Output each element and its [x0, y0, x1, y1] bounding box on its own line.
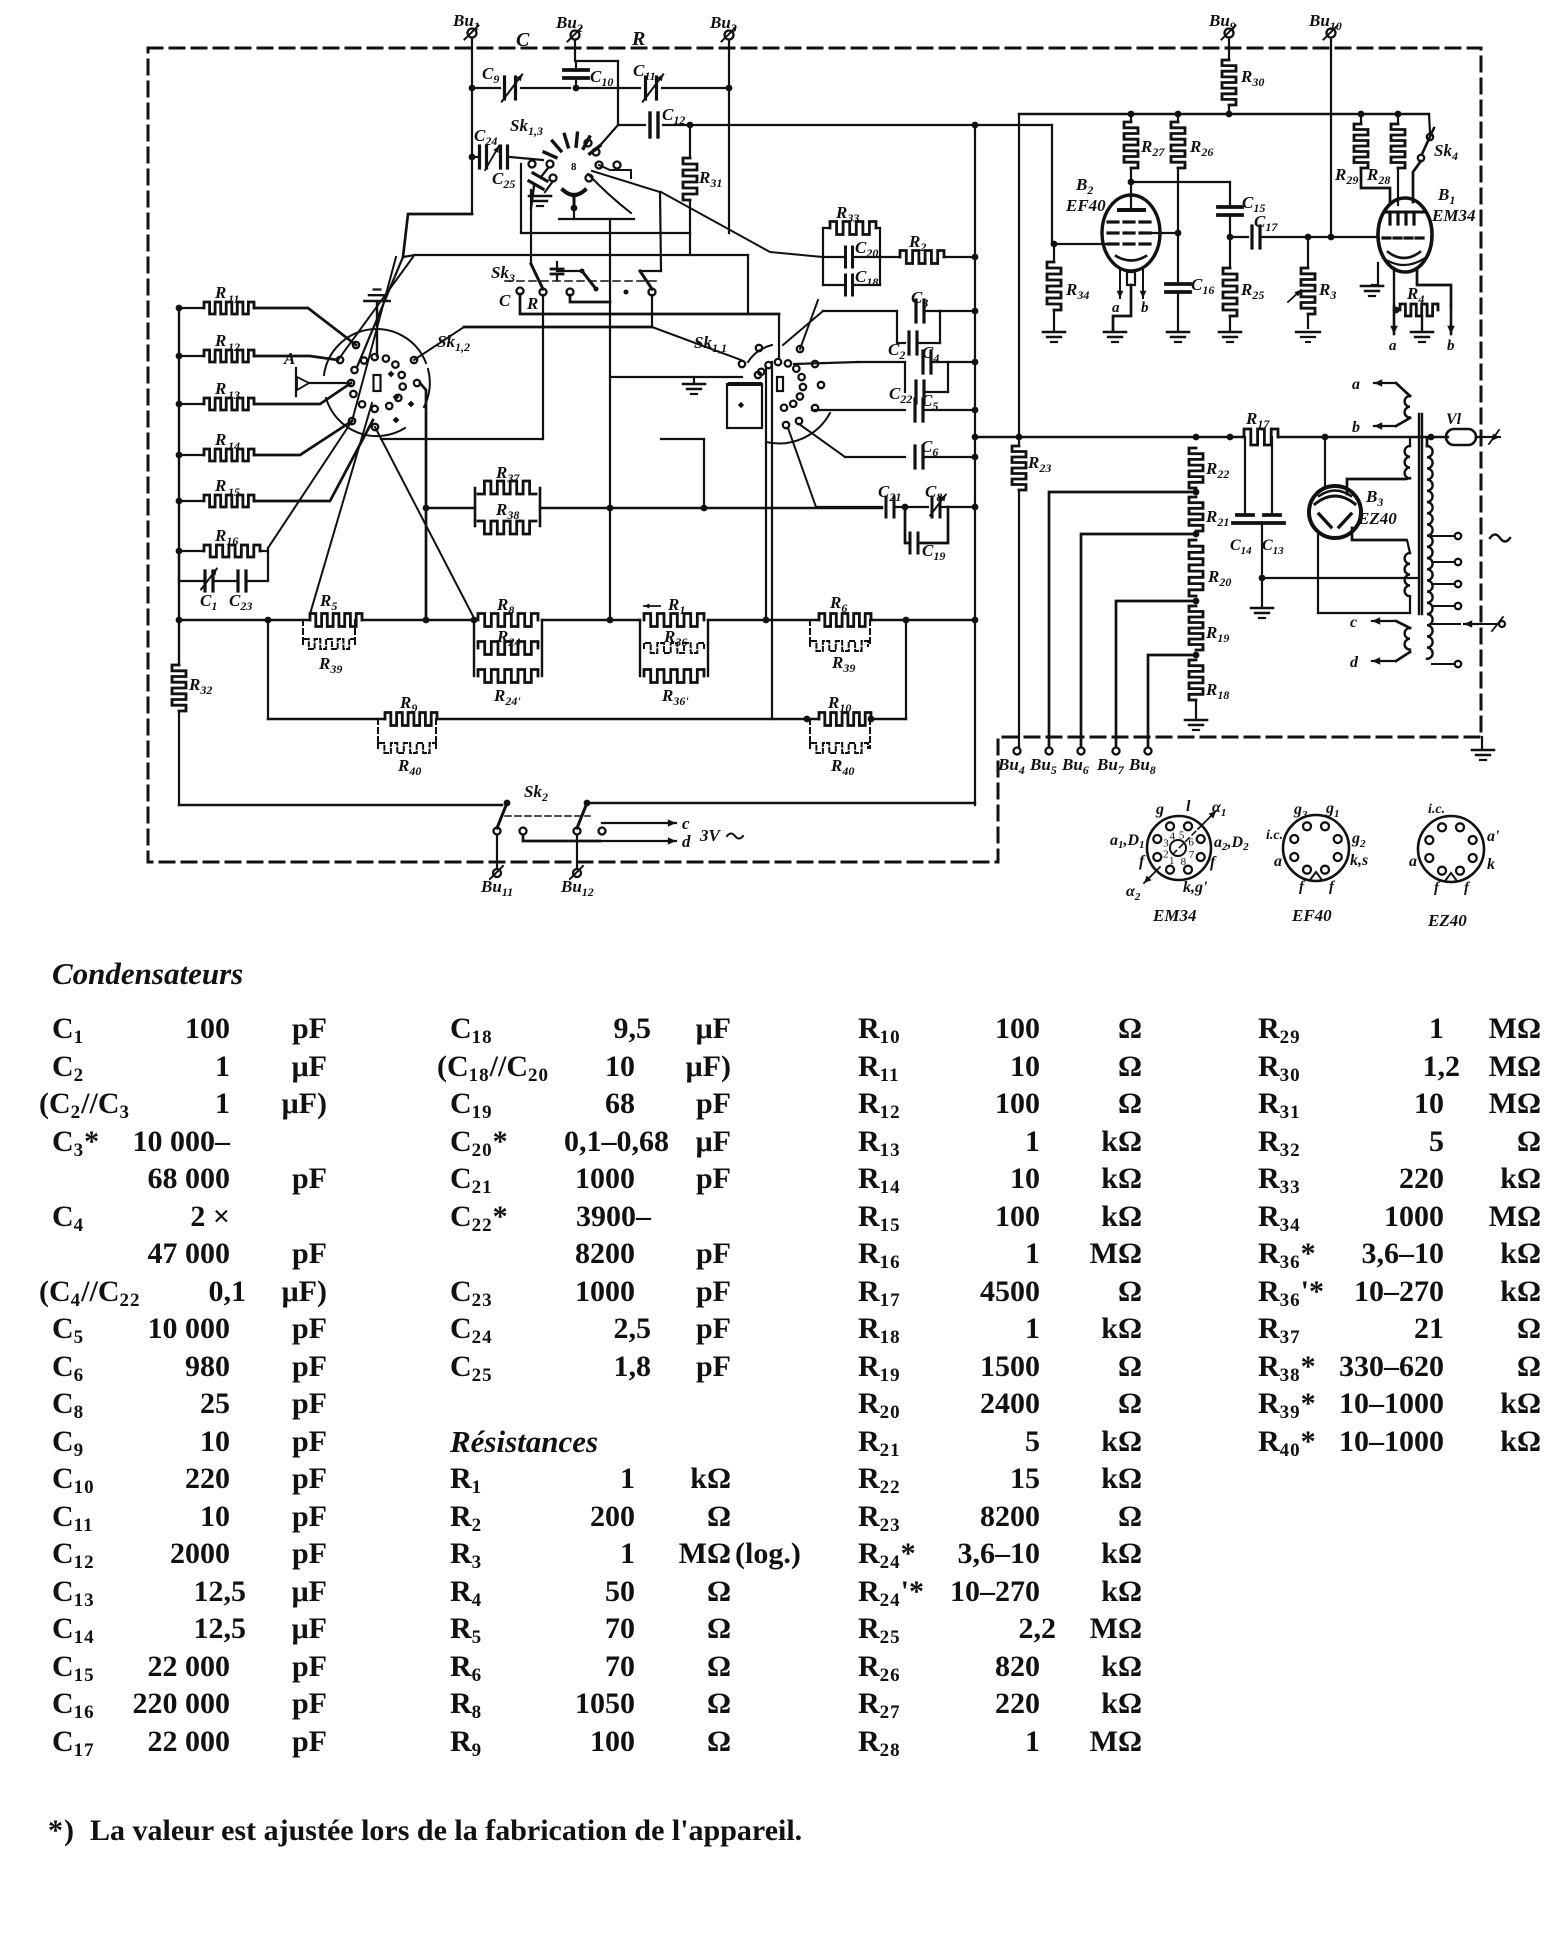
- svg-text:R37: R37: [495, 463, 520, 485]
- wire row y719: [268, 718, 385, 720]
- svg-text:R33: R33: [835, 203, 859, 225]
- wire R12-Sk1,2: [254, 356, 338, 360]
- transformer tap 2: [1432, 559, 1461, 565]
- socket EZ40 circle: [1418, 816, 1484, 882]
- tube B1 electrodes: [1383, 212, 1425, 265]
- svg-text:a2,D2: a2,D2: [1214, 834, 1249, 853]
- wire Sk1,1 drops: [766, 362, 772, 719]
- resistor R14: [176, 430, 254, 461]
- capacitor C19 (parallel): [905, 507, 948, 563]
- wire box slant: [357, 255, 415, 367]
- wire R38 output: [540, 505, 882, 512]
- svg-text:C10: C10: [590, 67, 613, 89]
- svg-text:C8: C8: [925, 482, 942, 504]
- wire HT rail: [1019, 113, 1429, 115]
- transformer winding a/b: [1352, 376, 1410, 436]
- svg-text:EF40: EF40: [1291, 906, 1332, 925]
- switch Sk4: [1413, 114, 1458, 202]
- svg-text:R28: R28: [1366, 165, 1390, 187]
- wire Sk3 blade3 out: [651, 295, 653, 327]
- resistor R12: [176, 331, 254, 362]
- svg-text:Vl: Vl: [1446, 411, 1462, 428]
- resistor chain R18: [1185, 660, 1229, 730]
- resistor R11: [176, 283, 254, 314]
- wire Bu6: [1081, 534, 1196, 747]
- wire Bu10 down: [1328, 38, 1335, 240]
- switch Sk3 blade2: [567, 269, 599, 296]
- svg-text:Bu6: Bu6: [1061, 755, 1089, 777]
- svg-text:3V: 3V: [699, 826, 722, 845]
- svg-text:R2: R2: [908, 232, 926, 254]
- svg-text:R31: R31: [698, 168, 722, 190]
- capacitor C24: [472, 126, 543, 170]
- wire C9 row: [472, 87, 570, 89]
- svg-text:R32: R32: [188, 675, 212, 697]
- transformer tap 4: [1432, 603, 1461, 609]
- resistor R26: [1171, 111, 1213, 233]
- svg-text:f: f: [1299, 879, 1306, 895]
- svg-text:C23: C23: [229, 591, 252, 613]
- svg-text:Sk1,2: Sk1,2: [437, 332, 470, 354]
- capacitor C16: [1166, 233, 1214, 342]
- svg-text:k,s: k,s: [1350, 852, 1368, 869]
- svg-text:R40: R40: [830, 756, 854, 778]
- tube B2 heater b: [1140, 270, 1149, 316]
- svg-text:R23: R23: [1027, 453, 1051, 475]
- terminal Bu9: [1208, 11, 1236, 40]
- svg-text:R19: R19: [1205, 623, 1229, 645]
- svg-text:Bu1: Bu1: [452, 11, 480, 33]
- resistor R39 (under R5): [303, 620, 355, 676]
- wire centre tap: [1262, 577, 1419, 579]
- capacitor C9: [482, 64, 522, 102]
- wire bus R6 right: [871, 617, 978, 624]
- svg-text:C17: C17: [1254, 212, 1278, 234]
- resistor R2: [880, 232, 978, 264]
- capacitor C1 loop: [179, 551, 217, 613]
- rotary switch Sk1,3: [510, 116, 621, 219]
- svg-text:R24': R24': [493, 686, 521, 708]
- svg-text:R: R: [526, 294, 538, 313]
- switch Sk3 blade1: [517, 264, 547, 296]
- wire C11-Bu3: [662, 87, 729, 89]
- svg-text:R29: R29: [1334, 165, 1358, 187]
- svg-text:R27: R27: [1140, 137, 1165, 159]
- terminal Bu6: [1061, 748, 1089, 778]
- svg-text:B3: B3: [1365, 487, 1383, 509]
- label Sk1,3 ground: [529, 181, 553, 206]
- capacitor C20: [823, 238, 880, 267]
- resistor R9: [385, 693, 437, 726]
- wire bus R8-R1: [542, 617, 640, 624]
- wire Sk1,2 slant1: [338, 257, 413, 360]
- svg-text:C3: C3: [911, 288, 928, 310]
- capacitor C12: [650, 105, 685, 137]
- wire x704 link: [661, 439, 704, 507]
- svg-text:R38: R38: [495, 500, 519, 522]
- resistor R15: [176, 476, 254, 507]
- svg-text:R30: R30: [1240, 67, 1264, 89]
- rotary switch Sk1,2: [324, 329, 470, 436]
- label C (Sk3): [499, 291, 511, 310]
- ground (C13/C14): [1251, 578, 1273, 618]
- wire Sk3 C contact: [520, 294, 779, 314]
- wire B3 cathode: [1322, 434, 1329, 487]
- svg-text:R: R: [214, 379, 226, 398]
- svg-text:R8: R8: [496, 595, 514, 617]
- resistor R30: [1222, 38, 1264, 117]
- wire Sk1,2 slant2: [352, 257, 396, 421]
- svg-text:Bu7: Bu7: [1096, 755, 1125, 777]
- transformer tap 1: [1432, 533, 1461, 539]
- wire Bu8: [1148, 655, 1196, 747]
- wire box top: [415, 254, 748, 256]
- wire Sk2 right: [587, 802, 975, 804]
- resistor R3: [1288, 234, 1336, 342]
- resistor R1: [644, 595, 704, 627]
- tube B3 EZ40: [1309, 486, 1397, 538]
- svg-text:k,g': k,g': [1183, 879, 1208, 896]
- capacitor C10: [564, 61, 613, 91]
- wire B1 to b: [1417, 268, 1455, 354]
- terminal Bu3: [709, 13, 737, 42]
- wire B3 anode lower: [1352, 528, 1405, 540]
- wire R37 input: [423, 505, 475, 512]
- wire box right: [747, 255, 749, 314]
- wire Bu1 down: [469, 38, 476, 91]
- wire C12 right: [663, 122, 1052, 129]
- svg-text:R5: R5: [319, 591, 337, 613]
- wire R32 to Sk2: [179, 711, 502, 805]
- svg-text:a: a: [1389, 338, 1397, 354]
- svg-text:Bu5: Bu5: [1029, 755, 1057, 777]
- transformer tap 3: [1432, 581, 1461, 587]
- wire R9 drop: [265, 617, 272, 719]
- terminal Bu8: [1128, 748, 1156, 778]
- resistor R32: [172, 665, 212, 711]
- tube B2 screen wire: [1152, 230, 1181, 237]
- svg-text:A: A: [283, 349, 295, 368]
- wire C10 loop: [576, 61, 618, 125]
- svg-text:R17: R17: [1245, 409, 1270, 431]
- svg-text:C16: C16: [1191, 275, 1214, 297]
- resistor R24: [478, 627, 538, 655]
- wire grid feed: [1051, 125, 1106, 247]
- svg-text:R: R: [631, 28, 645, 50]
- socket EM34 pins: [1153, 822, 1204, 873]
- wire Bu1-C24: [469, 88, 476, 160]
- socket EM34 labels: [1110, 798, 1249, 903]
- wire Bu3 down: [726, 40, 733, 233]
- svg-text:R36: R36: [663, 627, 687, 649]
- node A arrow: [283, 349, 309, 396]
- svg-text:f: f: [1329, 879, 1336, 895]
- Sk1,1 spoke wires: [652, 300, 818, 360]
- capacitor C22 (parallel C4): [889, 362, 948, 406]
- capacitor C4: [922, 343, 978, 373]
- svg-text:a1,D1: a1,D1: [1110, 832, 1145, 851]
- svg-text:Bu4: Bu4: [997, 755, 1025, 777]
- label 3V: [699, 826, 743, 845]
- svg-text:B2: B2: [1075, 175, 1093, 197]
- capacitor C21: [878, 482, 901, 517]
- wire to Sk1,1: [778, 314, 780, 358]
- socket EF40 name: [1291, 906, 1332, 925]
- svg-text:B1: B1: [1437, 185, 1455, 207]
- capacitor C23: [215, 548, 268, 613]
- svg-text:14: 14: [228, 439, 240, 453]
- svg-text:C24: C24: [474, 126, 497, 148]
- svg-text:d: d: [1350, 654, 1359, 671]
- wire B3 anode upper: [1347, 479, 1405, 494]
- wire C5 row: [812, 409, 905, 411]
- svg-text:b: b: [1352, 419, 1360, 436]
- svg-text:a: a: [1409, 853, 1417, 870]
- capacitor C5: [915, 391, 978, 421]
- svg-text:C21: C21: [878, 482, 901, 504]
- svg-text:3: 3: [1163, 837, 1169, 849]
- svg-text:R22: R22: [1205, 459, 1229, 481]
- svg-text:a: a: [1352, 376, 1360, 393]
- svg-text:Bu11: Bu11: [480, 877, 513, 899]
- socket EZ40 labels: [1409, 802, 1500, 896]
- resistor R27: [1124, 111, 1165, 182]
- wire Sk1,3 to R33 block: [661, 192, 823, 257]
- capacitor (Sk3 aux): [551, 262, 582, 280]
- wire Bu7: [1116, 601, 1196, 747]
- resistor R40 (under R10): [810, 719, 870, 778]
- resistor R33: [823, 203, 880, 257]
- socket EF40 circle: [1283, 815, 1349, 881]
- svg-text:R9: R9: [399, 693, 417, 715]
- tube B1 EM34 envelope: [1378, 185, 1475, 272]
- svg-text:Bu12: Bu12: [560, 877, 594, 899]
- label mains sine: [1490, 535, 1510, 542]
- rotary switch Sk1,1: [694, 333, 830, 443]
- capacitor C17: [1230, 212, 1331, 248]
- wire C12 left: [596, 125, 645, 150]
- svg-text:l: l: [1186, 798, 1191, 815]
- wire 3V output d: [523, 832, 691, 851]
- svg-text:α2: α2: [1126, 883, 1141, 903]
- svg-text:Bu2: Bu2: [555, 13, 583, 35]
- tube B2 heater a: [1112, 270, 1123, 316]
- capacitor C11: [633, 61, 663, 102]
- socket EM34 alpha1 arrow: [1173, 811, 1216, 854]
- svg-text:R: R: [214, 476, 226, 495]
- transformer winding HT upper: [1405, 438, 1410, 479]
- resistor R5: [310, 591, 362, 627]
- terminal Bu1: [452, 11, 480, 40]
- resistor R16: [176, 526, 268, 557]
- resistor R34: [1043, 244, 1089, 342]
- tube B2 cathode: [1113, 256, 1146, 330]
- terminal mains input: [1432, 617, 1505, 631]
- svg-text:Sk2: Sk2: [524, 782, 548, 804]
- svg-text:R25: R25: [1240, 280, 1264, 302]
- svg-text:Bu8: Bu8: [1128, 755, 1156, 777]
- switch Sk3 blade3: [624, 271, 662, 296]
- svg-text:C6: C6: [921, 437, 938, 459]
- svg-text:11: 11: [228, 292, 239, 306]
- socket EF40 pins: [1290, 822, 1341, 873]
- switch Sk2: [494, 782, 606, 835]
- resistor chain R22: [1189, 448, 1229, 495]
- wire B3 heater return: [1318, 535, 1410, 613]
- capacitor C18: [823, 228, 880, 295]
- wire Bu2 down: [574, 40, 576, 61]
- ground (R4): [1411, 316, 1433, 342]
- terminal Bu2: [555, 13, 583, 42]
- svg-text:R: R: [214, 283, 226, 302]
- svg-text:Sk3: Sk3: [491, 263, 515, 285]
- svg-text:R21: R21: [1205, 507, 1229, 529]
- svg-text:C9: C9: [482, 64, 499, 86]
- svg-text:C25: C25: [492, 169, 515, 191]
- capacitor C15: [1218, 193, 1265, 240]
- svg-text:Bu10: Bu10: [1308, 11, 1342, 33]
- svg-text:EZ40: EZ40: [1427, 911, 1467, 930]
- terminal Bu5: [1029, 748, 1057, 778]
- wire R10 right: [868, 716, 906, 723]
- transformer winding HT lower: [1405, 540, 1410, 613]
- terminal Bu12: [560, 835, 594, 899]
- resistor R17: [1244, 409, 1448, 445]
- svg-text:a: a: [1274, 853, 1282, 870]
- svg-text:R: R: [214, 331, 226, 350]
- transformer core: [1419, 414, 1422, 614]
- resistor R31: [683, 125, 722, 233]
- terminal Bu7: [1096, 748, 1125, 778]
- svg-text:f: f: [1210, 854, 1217, 871]
- svg-text:c: c: [682, 814, 690, 833]
- transformer bottom tap: [1432, 661, 1461, 667]
- wire C21 row: [788, 428, 882, 507]
- svg-text:C12: C12: [662, 105, 685, 127]
- resistor R38: [478, 488, 540, 534]
- svg-text:EF40: EF40: [1065, 196, 1106, 215]
- wire A-Sk1,2: [309, 382, 348, 384]
- wire Sk1,2 to R8: [375, 427, 474, 618]
- svg-text:C: C: [499, 291, 511, 310]
- tube B2 grids: [1108, 222, 1150, 244]
- svg-text:Bu9: Bu9: [1208, 11, 1236, 33]
- svg-text:Bu3: Bu3: [709, 13, 737, 35]
- resistor R36: [644, 627, 704, 653]
- svg-text:i.c.: i.c.: [1266, 828, 1283, 843]
- svg-text:a: a: [1112, 300, 1120, 316]
- resistor R37: [475, 463, 536, 526]
- wire y327: [414, 327, 652, 360]
- capacitor C14: [1230, 437, 1253, 557]
- svg-text:g2: g2: [1351, 830, 1366, 850]
- label C (top): [516, 29, 530, 51]
- resistor chain R20: [1189, 540, 1231, 604]
- socket EF40 labels: [1266, 800, 1368, 895]
- wire bus R1-R6: [708, 617, 819, 624]
- wire stub left of box: [403, 157, 472, 257]
- wire y377 to Sk1,1: [610, 377, 742, 394]
- svg-text:R: R: [214, 430, 226, 449]
- svg-text:C13: C13: [1262, 537, 1284, 557]
- wire row y719 mid: [437, 716, 819, 723]
- terminal Bu4: [997, 747, 1025, 777]
- capacitor C13: [1262, 437, 1284, 557]
- svg-text:b: b: [1447, 338, 1455, 354]
- tube B2 anode: [1119, 179, 1144, 210]
- wire B1 cathode a: [1389, 268, 1399, 354]
- svg-text:g: g: [1155, 801, 1164, 818]
- wire left drop: [1016, 114, 1023, 440]
- wire C4 row: [794, 362, 905, 364]
- resistor R13: [176, 379, 254, 410]
- wire R14-Sk1,2: [254, 421, 352, 455]
- svg-text:2: 2: [1163, 849, 1169, 861]
- wire C6 row: [799, 424, 905, 457]
- svg-text:EM34: EM34: [1431, 206, 1475, 225]
- terminal Bu10: [1308, 11, 1342, 40]
- wire anode-C15: [1131, 182, 1230, 204]
- svg-text:f: f: [1434, 880, 1441, 896]
- wire Sk3 blade1 feed: [530, 190, 532, 264]
- resistor chain R21: [1189, 497, 1229, 537]
- capacitor C13/C14 common plate: [1233, 523, 1284, 581]
- wire Bu5: [1049, 492, 1196, 747]
- svg-text:R40: R40: [397, 756, 421, 778]
- resistor R36': [644, 670, 704, 709]
- svg-text:d: d: [682, 832, 691, 851]
- svg-text:8: 8: [1181, 856, 1187, 868]
- svg-text:c: c: [1350, 614, 1357, 631]
- svg-text:k: k: [1487, 856, 1495, 873]
- resistor R4: [1400, 284, 1438, 316]
- resistor R25: [1219, 237, 1264, 342]
- svg-text:Sk4: Sk4: [1434, 141, 1458, 163]
- svg-text:R20: R20: [1207, 567, 1231, 589]
- transformer secondary: [1427, 434, 1434, 659]
- capacitor C3: [911, 288, 978, 322]
- svg-text:7: 7: [1189, 849, 1195, 861]
- resistor chain R19: [1189, 606, 1229, 658]
- wire drop x906: [905, 620, 907, 719]
- svg-text:f: f: [1464, 880, 1471, 896]
- capacitor C2 (parallel C3): [888, 311, 940, 362]
- transformer winding c/d: [1350, 614, 1410, 671]
- socket EM34 circle: [1147, 816, 1211, 880]
- svg-text:R36': R36': [661, 686, 689, 708]
- svg-text:R34: R34: [1065, 280, 1089, 302]
- svg-text:R39: R39: [831, 653, 855, 675]
- socket EZ40 pins: [1425, 823, 1476, 874]
- svg-text:b: b: [1141, 300, 1149, 316]
- svg-text:R16: R16: [214, 526, 238, 548]
- svg-text:C: C: [516, 29, 530, 51]
- resistor R29: [1334, 111, 1390, 202]
- svg-text:13: 13: [228, 388, 240, 402]
- svg-text:15: 15: [228, 485, 240, 499]
- Sk1,1 rotor frame: [727, 384, 762, 428]
- resistor R28: [1366, 111, 1405, 205]
- ground (B1): [1361, 263, 1383, 296]
- wire R13-Sk1,2: [254, 383, 351, 404]
- wire y437: [975, 434, 1244, 441]
- resistor R8 group frame: [474, 620, 542, 676]
- wire Sk1,2 out right: [420, 383, 426, 620]
- wire bus R5-R8: [362, 617, 477, 624]
- svg-text:8: 8: [571, 161, 577, 173]
- wire C17-EM34: [1331, 236, 1378, 238]
- svg-text:f: f: [1139, 853, 1146, 870]
